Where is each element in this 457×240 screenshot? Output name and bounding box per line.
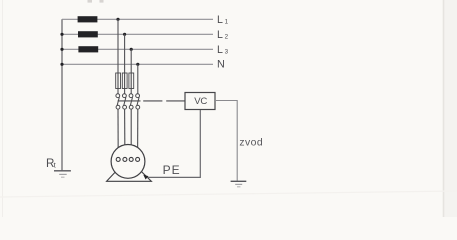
node: bus junction at L2 xyxy=(60,33,63,36)
wire: neutral line N xyxy=(62,63,213,65)
fuse (filled) on L3 xyxy=(78,46,98,52)
node: bus junction at N xyxy=(60,63,63,66)
wire: phase line L3 xyxy=(62,48,213,50)
motor terminal 3 xyxy=(129,157,133,161)
svg-text:PE: PE xyxy=(163,163,181,177)
ground: Rt earth electrode xyxy=(54,170,71,172)
motor terminal 4 xyxy=(136,157,140,161)
node: branch junction on N xyxy=(136,63,139,66)
wire: L1 drop xyxy=(117,19,119,94)
coil U1 "VC" box xyxy=(185,93,215,110)
wire: motor feeder neutral xyxy=(137,109,139,158)
svg-text:2: 2 xyxy=(225,34,229,41)
motor M1 body xyxy=(111,145,145,179)
node: branch junction on L1 xyxy=(116,18,119,21)
wire: motor feeder phase 1 xyxy=(117,109,119,158)
wire: phase line L1 xyxy=(62,18,213,20)
motor terminal 1 xyxy=(116,157,120,161)
motor terminal 2 xyxy=(123,157,127,161)
contactor pole 4 contacts xyxy=(136,94,140,98)
svg-text:L: L xyxy=(217,14,223,26)
node: bus junction at L3 xyxy=(60,48,63,51)
svg-text:zvod: zvod xyxy=(239,138,263,149)
wire: L3 drop xyxy=(130,49,132,94)
PE arrowhead at motor frame xyxy=(143,175,148,180)
wire: dashed link to coil VC xyxy=(143,100,162,102)
wire: motor feeder phase 3 xyxy=(130,109,132,158)
contactor pole 3 contacts xyxy=(129,94,133,98)
wire: contactor mechanical link xyxy=(118,100,141,102)
svg-text:1: 1 xyxy=(225,19,229,26)
node: branch junction on L2 xyxy=(123,33,126,36)
wire: PE conductor from coil to motor frame xyxy=(146,110,200,177)
node: branch junction on L3 xyxy=(130,48,133,51)
fuse F1 (branch, open rect) xyxy=(116,73,121,89)
fuse F3 (branch, open rect) xyxy=(129,73,134,89)
svg-text:L: L xyxy=(217,29,223,41)
fuse F2 (branch, open rect) xyxy=(122,73,127,89)
wire: phase line L2 xyxy=(62,33,213,35)
contactor pole 1 contacts xyxy=(116,94,120,98)
wire: L2 drop xyxy=(124,34,126,94)
wire: coil to earth electrode (zvod) xyxy=(215,101,237,181)
svg-text:VC: VC xyxy=(194,96,207,107)
ground: zvod earth electrode xyxy=(231,180,247,182)
svg-text:3: 3 xyxy=(225,49,229,56)
svg-text:N: N xyxy=(217,58,225,70)
contactor pole 2 contacts xyxy=(123,94,127,98)
wire: earthing bus vertical (Rt electrode conductor) xyxy=(61,19,63,170)
fuse (filled) on L1 xyxy=(78,16,98,22)
svg-text:L: L xyxy=(217,44,223,56)
wire: motor feeder phase 2 xyxy=(124,109,126,158)
fuse (filled) on L2 xyxy=(78,31,98,37)
wire: N drop xyxy=(137,64,139,94)
motor mounting base triangle xyxy=(107,159,152,182)
